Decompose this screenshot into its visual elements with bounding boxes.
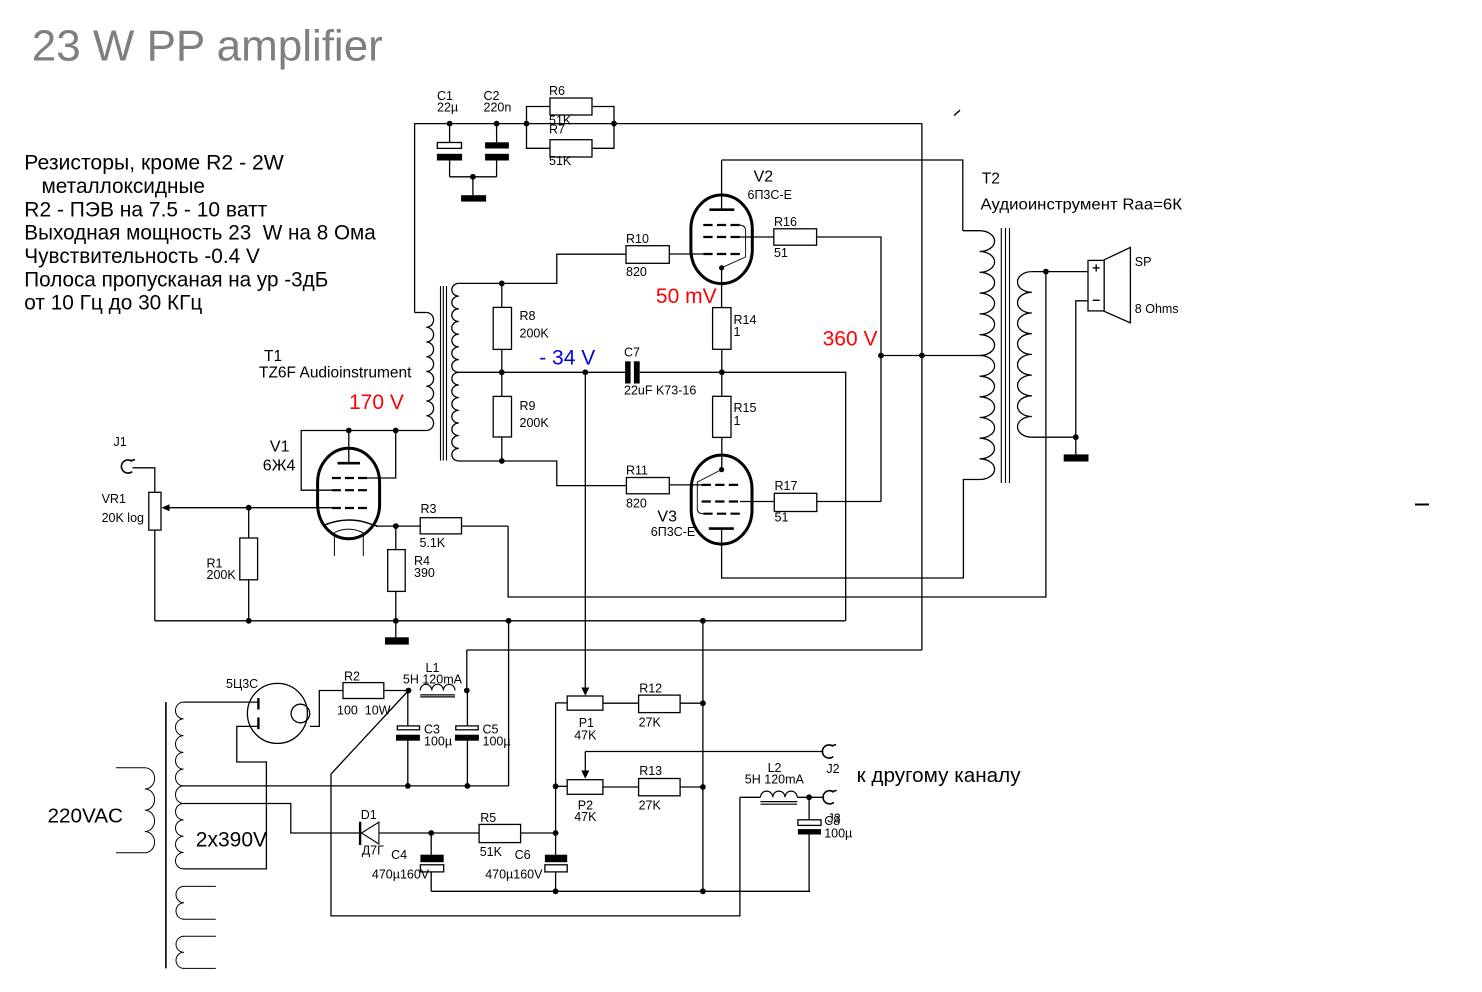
resistor R10 [626,232,669,279]
svg-text:T2: T2 [982,171,1000,188]
wire HV top to plate [184,701,259,703]
ground T2 secondary [1064,437,1089,461]
tube V3 grid g3 [703,513,740,515]
wire NFB path [508,272,1046,597]
svg-text:51: 51 [775,511,789,525]
inductor L2 [761,791,798,797]
wire B+ vertical right [921,124,923,650]
svg-text:R3: R3 [421,502,437,516]
tube 5Ц3С plate 1 [257,698,259,710]
wire HV bottom to plate [184,726,267,869]
potentiometer P1 [556,688,603,743]
wire ground rail [155,620,846,622]
tube V1 grid g3 [332,477,367,479]
svg-text:20K log: 20K log [102,511,144,525]
wire V2 anode rail [722,160,963,231]
svg-text:5H 120mA: 5H 120mA [403,673,463,687]
svg-text:22µ: 22µ [437,101,458,115]
tube V2 anode [709,208,734,211]
transformer T2 secondary [1018,272,1032,438]
node C5 gnd [465,783,471,789]
wire R13 right [680,786,703,788]
node C3 gnd [405,783,411,789]
speaker SP [1088,247,1179,323]
svg-text:J2: J2 [826,762,839,776]
node R8 top [499,281,505,287]
wire V2 cathode lead [721,268,723,308]
svg-text:T1: T1 [264,348,282,365]
transformer T1 secondary lower [452,372,459,461]
tube V2 grid g2 [703,236,740,238]
wire P1 feed [584,372,586,687]
node 360V at x922 [919,353,925,359]
svg-text:SP: SP [1135,255,1152,269]
wire rectifier cathode to R2 [310,691,343,727]
transformer PT HV winding [175,702,183,786]
transformer T1 core [440,286,442,461]
capacitor C4 [372,833,444,891]
transformer PT primary [116,767,145,769]
transformer T1 secondary upper [452,283,459,372]
svg-text:2x390V: 2x390V [196,829,267,852]
wire V3 anode to T2 bottom [722,480,980,579]
tube V2 grid g1 [703,253,740,255]
node minus rail C6 [553,888,559,894]
node rail R1 [246,618,252,624]
svg-text:Чувствительность -0.4 V: Чувствительность -0.4 V [24,244,260,268]
wire P1 to R12 [603,702,639,704]
wire V2 g2 to R16 [740,236,774,238]
wire V1 cathode lead [376,525,420,527]
svg-text:R15: R15 [734,401,757,415]
wire R10 to V2 grid [669,253,703,255]
capacitor C7 [624,346,696,398]
wire P2 to R13 [603,786,639,788]
svg-text:470µ160V: 470µ160V [485,867,543,881]
node bias P2 tap [553,783,559,789]
svg-text:R6: R6 [549,84,565,98]
svg-text:200K: 200K [520,327,550,341]
wire T1 primary bottom lead [301,431,426,491]
svg-text:50 mV: 50 mV [656,285,717,308]
transformer T2 primary lower [980,356,995,480]
svg-text:27K: 27K [639,716,662,730]
svg-text:Полоса пропусканая на ур -3дБ: Полоса пропусканая на ур -3дБ [24,267,328,291]
svg-text:27K: 27K [639,799,662,813]
svg-text:220VAC: 220VAC [48,805,124,828]
svg-text:TZ6F Audioinstrument: TZ6F Audioinstrument [259,365,412,382]
svg-text:6Ж4: 6Ж4 [263,457,296,474]
connector J3 [823,790,841,825]
svg-text:5H 120mA: 5H 120mA [745,773,805,787]
capacitor C5 [455,691,511,786]
capacitor C1 [437,89,462,177]
wire PSU ground drop [508,621,510,786]
svg-text:Выходная мощность 23 W на 8 О: Выходная мощность 23 W на 8 Ома [24,221,376,245]
tube V3 grid g1 [702,484,740,486]
wire HV bias tap [184,804,361,834]
tube V2 g3-cathode tie [723,225,746,267]
wire T2 primary top lead [963,230,980,232]
wire R6R7 left bracket [527,107,551,149]
node L1 right [464,688,470,694]
node rail R4 [393,618,399,624]
svg-text:100µ: 100µ [824,827,852,841]
wire C1-C2 join [450,176,497,178]
resistor R9 [493,372,549,461]
svg-text:R11: R11 [626,464,648,478]
wire V3 g2 to R17 [740,501,774,503]
wire D1 to R5 [379,832,479,834]
wire R16 to 360V rail [817,237,881,502]
svg-text:820: 820 [626,265,647,279]
transformer T1 primary [415,312,427,314]
wire HV ground tap [184,785,509,787]
ground main [385,621,409,645]
svg-text:51K: 51K [549,154,572,168]
svg-text:от 10 Гц до 30 КГц: от 10 Гц до 30 КГц [24,291,202,315]
tube V1 anode [338,462,361,465]
svg-text:Резисторы, кроме R2 - 2W: Резисторы, кроме R2 - 2W [24,151,284,175]
node R9 bottom [499,458,505,464]
svg-text:R17: R17 [775,479,798,493]
node R5 C6 junction [553,830,559,836]
rectifier tube 5Ц3С [247,683,307,743]
wire raw B+ diagonal [331,691,740,916]
tube V1 grid g2 [332,489,367,491]
wire V2 anode lead [721,160,723,210]
tube V3 g3-cathode tie [697,470,720,514]
svg-text:5Ц3С: 5Ц3С [226,677,258,691]
resistor R6 [549,84,592,128]
svg-text:1: 1 [734,414,741,428]
transformer PT heater winding 1 [183,885,216,887]
resistor R2 [337,670,391,718]
wire T1 sec bottom to R11 [459,461,627,486]
tube V2 cathode node [719,265,724,270]
node 360V at x881 [878,353,884,359]
svg-text:6П3С-Е: 6П3С-Е [651,525,695,539]
wire speaker minus [1076,301,1088,437]
wire R5 right [521,832,556,834]
svg-text:R2: R2 [344,670,360,684]
resistor R14 [713,308,757,350]
svg-text:51K: 51K [480,845,503,859]
svg-text:R8: R8 [520,309,536,323]
wire gnd vertical 2 [702,621,704,892]
svg-text:- 34 V: - 34 V [539,347,595,370]
resistor R5 [479,811,520,859]
wire P2 wiper to J2 [585,751,823,753]
potentiometer P2 [556,752,603,825]
svg-text:R9: R9 [520,399,536,413]
connector J2 [822,745,839,776]
svg-text:6П3С-Е: 6П3С-Е [748,188,792,202]
wire top rail [415,123,922,125]
resistor R13 [639,764,681,813]
node NFB takeoff [1043,269,1049,275]
node R1 top [246,505,252,511]
svg-text:22uF K73-16: 22uF K73-16 [624,384,696,398]
resistor R4 [388,526,435,621]
wire T2 sec top to speaker [1032,271,1088,273]
node sec bottom junction [1073,434,1079,440]
svg-text:R10: R10 [626,232,649,246]
wire V1 screen lead [367,431,396,479]
diode D1 [360,808,384,857]
node C1 top [447,121,453,127]
svg-text:360 V: 360 V [823,327,878,350]
svg-text:820: 820 [626,497,647,511]
node rail PSU drop [506,618,512,624]
node minus rail gnd [700,888,706,894]
wire L2 right to J3 [797,796,824,798]
svg-text:Д7Г: Д7Г [362,843,384,857]
wire B+ line [467,649,922,651]
wire 360V to T2 center [881,355,980,357]
wire input drop to T1 primary [414,123,416,313]
svg-text:470µ160V: 470µ160V [372,867,430,881]
tube V2 grid g3 [703,224,740,226]
svg-text:Аудиоинструмент Raa=6К: Аудиоинструмент Raa=6К [981,196,1183,213]
svg-text:VR1: VR1 [102,492,126,506]
wire T1 sec top to R10 [459,254,626,283]
svg-text:8 Ohms: 8 Ohms [1135,302,1179,316]
wire B+ down to L1 [466,650,468,691]
resistor R16 [774,215,817,260]
svg-text:200K: 200K [207,568,237,582]
svg-text:R13: R13 [639,764,662,778]
svg-text:200K: 200K [520,416,550,430]
svg-text:5.1K: 5.1K [420,536,446,550]
stray tick mark [954,110,960,115]
tube 5Ц3С plate 2 [257,718,259,730]
ground under C1C2 [461,177,486,202]
node R8R9 mid [499,369,505,375]
node V1 anode tap [346,428,352,434]
svg-text:R16: R16 [774,215,797,229]
node L1 left [406,688,412,694]
svg-text:D1: D1 [361,808,377,822]
wire bias vertical [555,703,557,855]
transformer T2 core [1000,228,1002,483]
svg-text:C8: C8 [824,814,840,828]
svg-text:51: 51 [774,246,788,260]
wire T2 sec bottom [1032,436,1076,438]
wire minus rail [431,890,810,892]
svg-text:V1: V1 [270,439,290,456]
node R6R7 right [611,121,617,127]
tube V1 heater [334,529,363,533]
wire V1 anode lead [348,431,350,464]
tube V3 envelope [691,455,752,544]
svg-text:C4: C4 [391,848,407,862]
tube V3 cathode node [719,467,724,472]
svg-text:100 10W: 100 10W [337,704,391,718]
node R4 top [393,523,399,529]
svg-text:V3: V3 [657,509,677,526]
tube V2 envelope [691,195,752,284]
capacitor C8 [798,797,852,891]
svg-text:C7: C7 [624,346,640,360]
node R12 gnd [700,700,706,706]
svg-text:V2: V2 [754,169,774,186]
wire R14 bottom [721,349,723,372]
transformer T2 primary upper [980,231,995,356]
node P1 feed tap [582,369,588,375]
svg-text:R7: R7 [549,123,565,137]
connector J1 [114,435,136,473]
tube V1 envelope [318,448,380,538]
inductor L1 [420,684,455,690]
wire R2 to L1 [384,690,409,692]
resistor R1 [207,508,258,621]
svg-text:металлоксидные: металлоксидные [42,174,206,198]
svg-text:C6: C6 [515,848,531,862]
svg-text:R12: R12 [639,682,662,696]
capacitor C3 [396,691,452,786]
stray dash mark [1415,504,1429,506]
transformer PT heater winding 2 [183,935,216,937]
wire R6R7 right bracket [592,107,614,149]
tube V3 grid g2 [702,500,740,502]
svg-text:23 W PP amplifier: 23 W PP amplifier [32,23,383,71]
tube V1 grid g1 [332,507,367,509]
tube V3 anode [709,527,734,530]
resistor R11 [626,464,669,511]
notes text block [24,151,376,315]
svg-text:170 V: 170 V [349,391,404,414]
svg-text:390: 390 [414,566,435,580]
tube V1 cathode arc [325,520,378,526]
node C8 top [806,794,812,800]
capacitor C2 [484,89,512,177]
resistor R8 [493,283,549,372]
node V1 screen tap [393,428,399,434]
node R6R7 left [524,121,530,127]
potentiometer VR1 [102,492,170,530]
transformer PT core [165,702,167,968]
svg-text:R5: R5 [480,811,496,825]
svg-text:1: 1 [734,325,741,339]
node C2 top [494,121,500,127]
wire L2 left [740,796,761,798]
svg-text:47K: 47K [574,810,597,824]
wire -34V line [459,371,625,373]
resistor R15 [713,372,757,469]
node cathode sense mid [719,369,725,375]
svg-text:100µ: 100µ [424,734,452,748]
wire R17 to 360V rail [817,501,881,503]
capacitor C6 [485,848,567,891]
wire R3 right [462,525,509,527]
wire VR1 wiper to V1 grid [170,507,332,509]
svg-text:к другому каналу: к другому каналу [857,765,1021,787]
svg-text:R2 - ПЭВ на 7.5 - 10 ватт: R2 - ПЭВ на 7.5 - 10 ватт [24,197,267,221]
svg-text:100µ: 100µ [483,734,511,748]
svg-text:47K: 47K [574,729,597,743]
resistor R17 [774,479,817,525]
wire VR1 bottom [154,530,156,621]
resistor R7 [549,123,592,169]
resistor R3 [420,502,462,550]
node R13 gnd [700,784,706,790]
wire R11 to V3 grid [669,484,703,486]
svg-text:220n: 220n [484,101,512,115]
node C4 top [428,830,434,836]
node rail gnd2 [700,618,706,624]
wire C7 right to ground drop [640,372,846,621]
resistor R12 [639,682,681,730]
node C1C2 junction [470,174,476,180]
svg-text:J1: J1 [114,435,127,449]
wire J1 to VR1 [133,468,155,493]
wire R12 right [680,702,703,704]
